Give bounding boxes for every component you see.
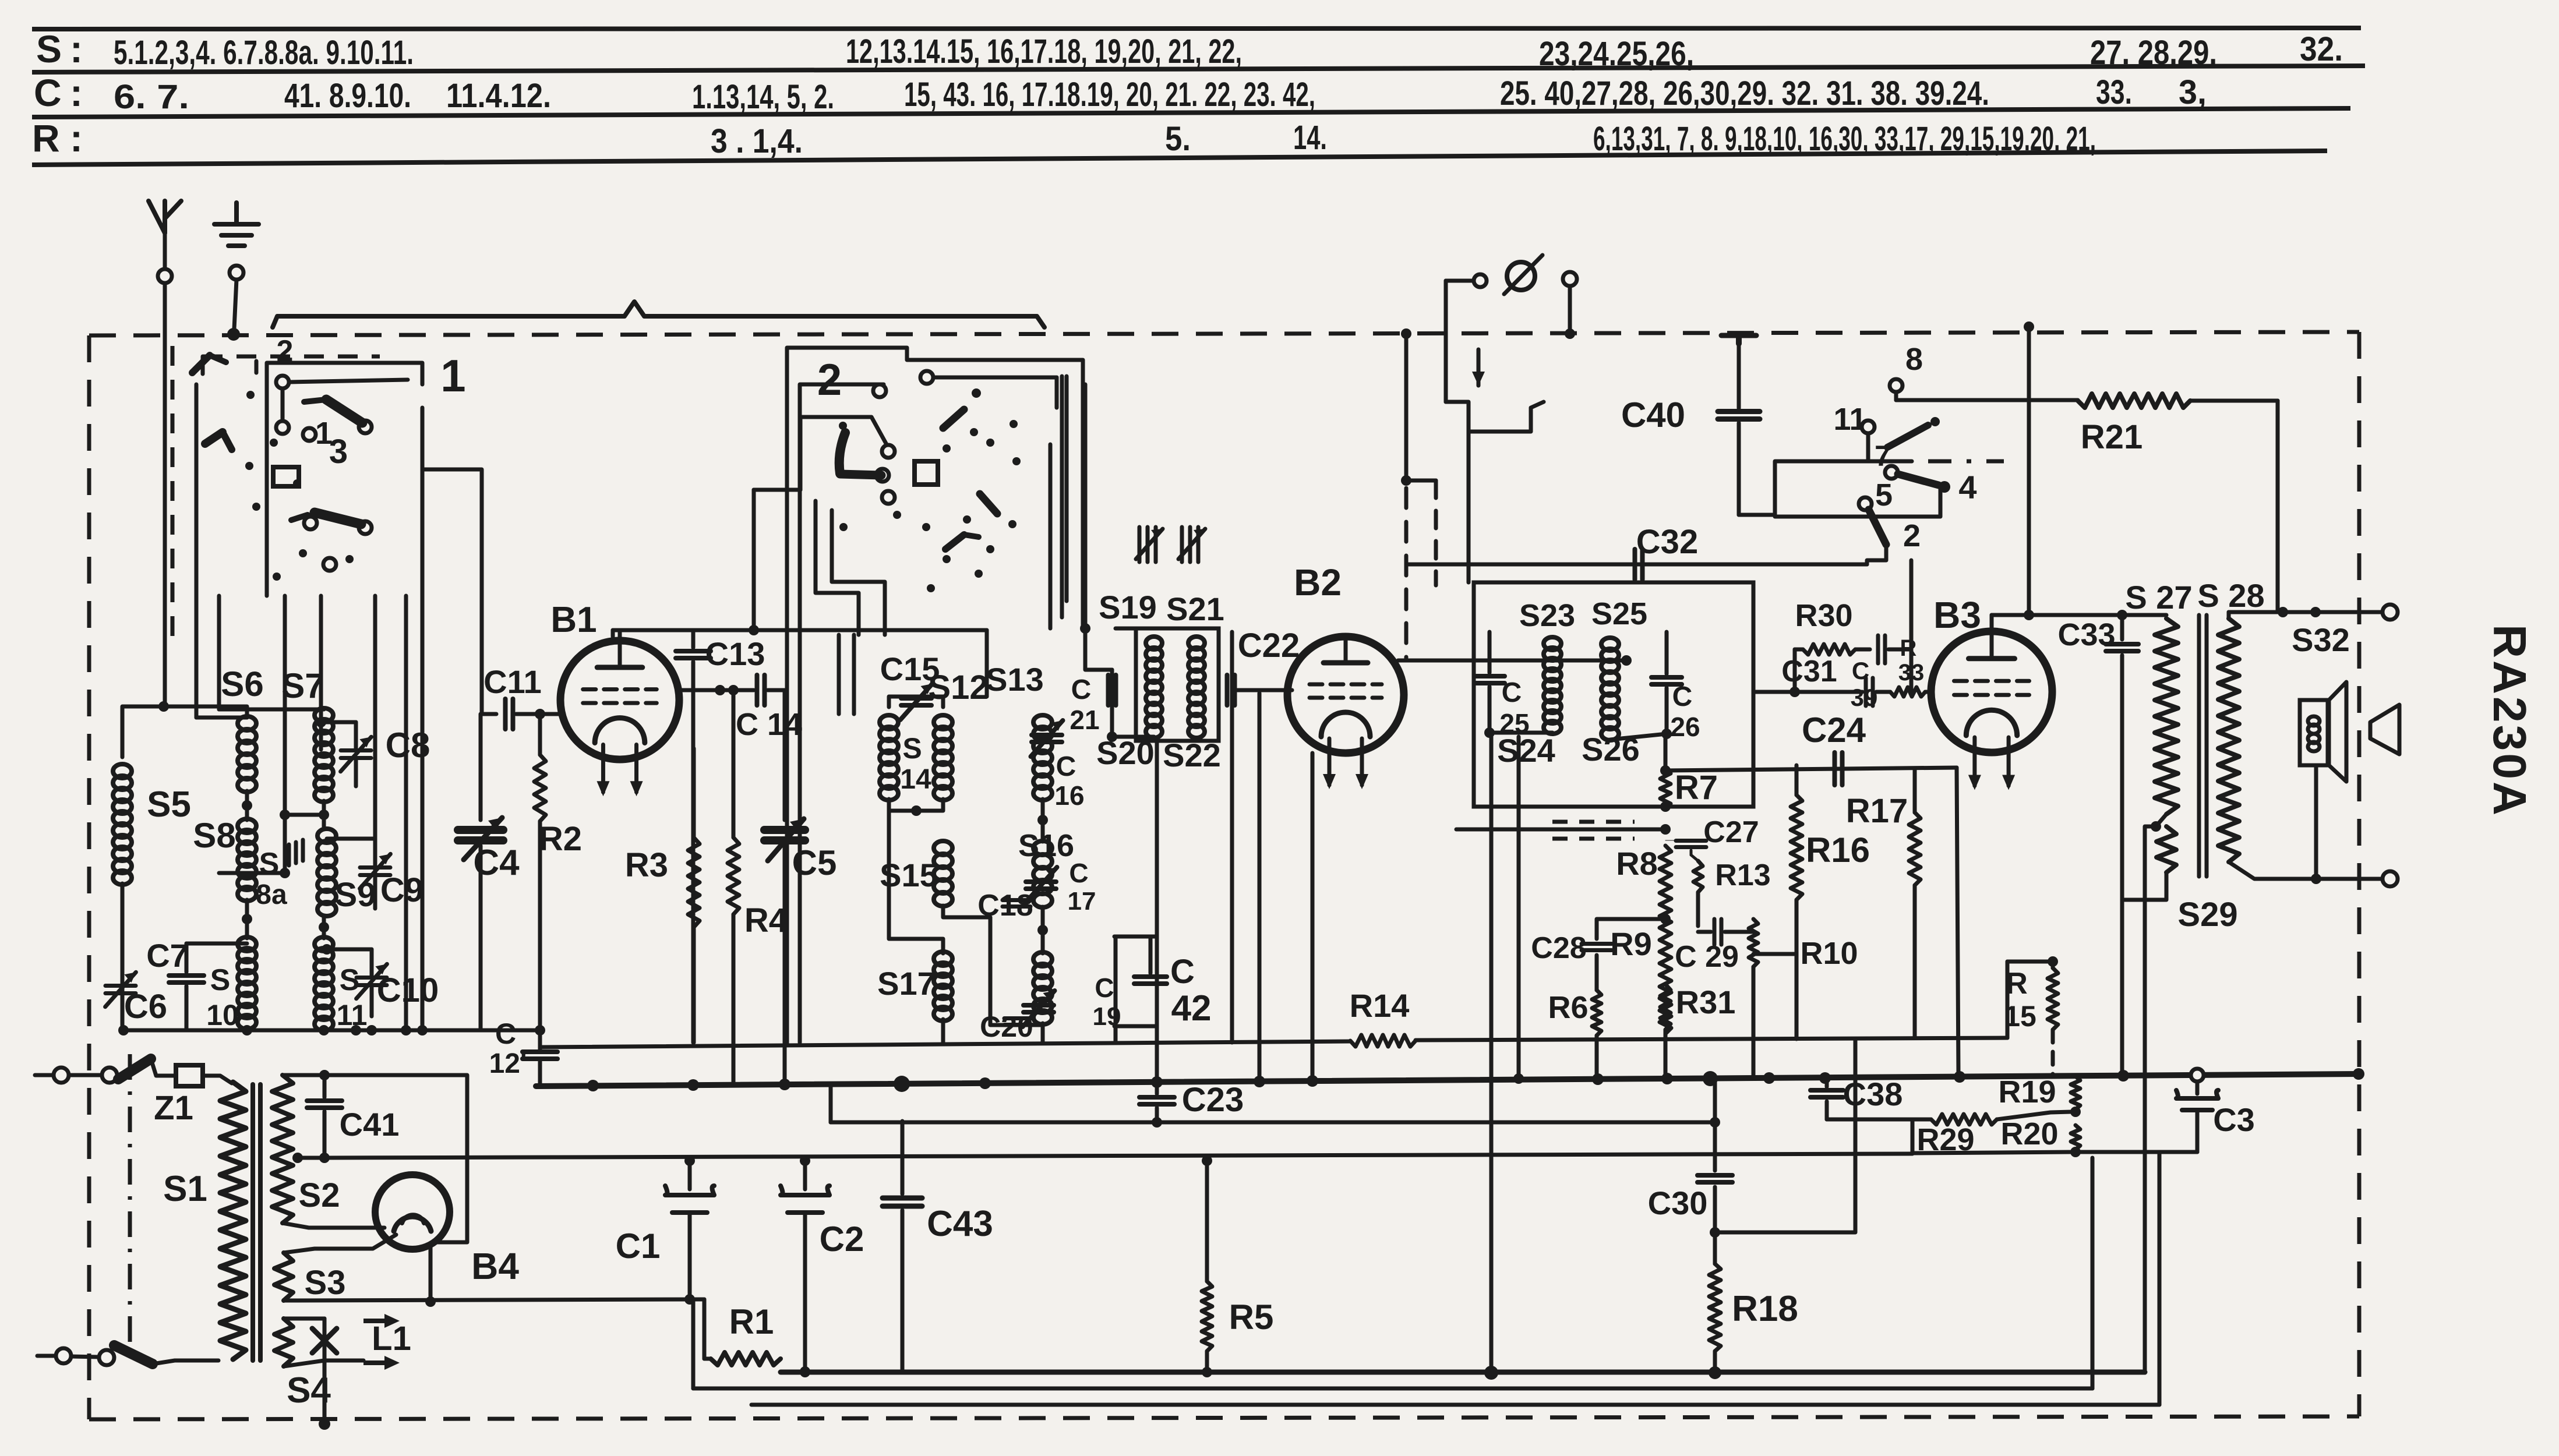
svg-text:5.: 5. bbox=[1165, 120, 1191, 158]
svg-text:12,13.14.15, 16,17.18, 19,20,: 12,13.14.15, 16,17.18, 19,20, 21, 22, bbox=[846, 33, 1242, 70]
svg-text:C3: C3 bbox=[2213, 1101, 2255, 1138]
svg-text:C24: C24 bbox=[1802, 711, 1866, 750]
svg-text:S6: S6 bbox=[221, 665, 263, 704]
svg-text:R: R bbox=[2006, 967, 2028, 1001]
svg-text:C11: C11 bbox=[483, 663, 542, 700]
svg-text:S2: S2 bbox=[299, 1176, 340, 1214]
svg-text:S5: S5 bbox=[147, 784, 191, 825]
svg-text:11.4.12.: 11.4.12. bbox=[446, 77, 551, 115]
svg-text:C: C bbox=[34, 71, 62, 114]
svg-text:S23: S23 bbox=[1519, 598, 1575, 633]
svg-text:4: 4 bbox=[1958, 469, 1976, 506]
svg-text:C: C bbox=[1071, 674, 1092, 705]
svg-text:S: S bbox=[340, 963, 360, 997]
svg-text:1.13,14, 5, 2.: 1.13,14, 5, 2. bbox=[692, 78, 834, 116]
svg-text:R6: R6 bbox=[1548, 990, 1588, 1025]
svg-text:R10: R10 bbox=[1800, 936, 1858, 971]
svg-text:C22: C22 bbox=[1238, 627, 1300, 665]
svg-text:S 28: S 28 bbox=[2197, 577, 2264, 614]
svg-text:S16: S16 bbox=[1018, 828, 1074, 863]
svg-text:R1: R1 bbox=[729, 1302, 774, 1341]
svg-text:R14: R14 bbox=[1350, 987, 1410, 1024]
svg-text::: : bbox=[70, 116, 83, 160]
svg-text:C9: C9 bbox=[380, 871, 423, 909]
svg-text:R13: R13 bbox=[1715, 858, 1770, 892]
svg-text:S32: S32 bbox=[2292, 621, 2350, 658]
svg-text::: : bbox=[70, 71, 83, 114]
svg-text:15: 15 bbox=[2004, 1000, 2036, 1033]
svg-text:27. 28.29.: 27. 28.29. bbox=[2090, 34, 2217, 72]
svg-text:C: C bbox=[1502, 677, 1522, 708]
svg-text:8: 8 bbox=[1905, 342, 1923, 377]
svg-text:C31: C31 bbox=[1781, 655, 1837, 688]
svg-text:C23: C23 bbox=[1182, 1081, 1244, 1119]
svg-text:S1: S1 bbox=[163, 1169, 207, 1209]
svg-text:R: R bbox=[1900, 635, 1917, 661]
svg-text:C10: C10 bbox=[377, 971, 439, 1009]
svg-text:5.1.2,3,4. 6.7.8.8a. 9.10.11.: 5.1.2,3,4. 6.7.8.8a. 9.10.11. bbox=[114, 34, 414, 72]
svg-text:C6: C6 bbox=[124, 988, 167, 1026]
svg-text:11: 11 bbox=[337, 999, 368, 1031]
svg-text:C: C bbox=[1056, 751, 1076, 782]
svg-text:C28: C28 bbox=[1531, 931, 1586, 965]
svg-text:21: 21 bbox=[1070, 705, 1099, 735]
svg-text:C40: C40 bbox=[1621, 395, 1685, 434]
svg-text:Z1: Z1 bbox=[154, 1089, 193, 1127]
svg-text:R8: R8 bbox=[1616, 845, 1658, 882]
svg-text:C27: C27 bbox=[1703, 815, 1759, 849]
svg-text:R21: R21 bbox=[2081, 418, 2142, 456]
svg-text:S13: S13 bbox=[986, 661, 1044, 698]
svg-text:33: 33 bbox=[1898, 660, 1925, 685]
svg-text:C7: C7 bbox=[146, 937, 188, 974]
svg-text:C32: C32 bbox=[1636, 523, 1698, 561]
svg-text:R7: R7 bbox=[1675, 769, 1718, 807]
svg-text:C 14: C 14 bbox=[736, 707, 802, 742]
svg-text:S 27: S 27 bbox=[2125, 579, 2192, 616]
svg-text:C4: C4 bbox=[473, 843, 520, 883]
svg-text:3 . 1,4.: 3 . 1,4. bbox=[711, 122, 803, 160]
svg-text:16: 16 bbox=[1054, 780, 1084, 811]
svg-text:B1: B1 bbox=[550, 600, 596, 640]
svg-text::: : bbox=[70, 27, 83, 70]
svg-text:S9: S9 bbox=[335, 876, 376, 914]
svg-text:26: 26 bbox=[1670, 712, 1700, 742]
svg-text:R4: R4 bbox=[744, 902, 788, 939]
svg-text:23,24.25,26,: 23,24.25,26, bbox=[1539, 35, 1694, 73]
svg-text:17: 17 bbox=[1068, 887, 1096, 916]
svg-text:8a: 8a bbox=[256, 879, 287, 910]
svg-text:S17: S17 bbox=[877, 965, 936, 1002]
svg-text:R3: R3 bbox=[625, 846, 668, 884]
svg-text:R16: R16 bbox=[1806, 831, 1870, 870]
svg-text:S: S bbox=[259, 847, 280, 881]
svg-text:C: C bbox=[495, 1017, 516, 1050]
svg-text:S7: S7 bbox=[281, 666, 324, 705]
svg-text:32.: 32. bbox=[2300, 30, 2343, 68]
svg-text:R19: R19 bbox=[1998, 1075, 2056, 1109]
svg-text:15, 43. 16, 17.18.19, 20, 21.: 15, 43. 16, 17.18.19, 20, 21. 22, 23. 42… bbox=[904, 76, 1315, 114]
svg-text:6,13,31, 7, 8. 9,18,10, 16,30,: 6,13,31, 7, 8. 9,18,10, 16,30, 33,17, 29… bbox=[1593, 120, 2096, 158]
svg-text:B2: B2 bbox=[1294, 561, 1342, 603]
svg-text:C1: C1 bbox=[616, 1227, 661, 1266]
svg-text:C41: C41 bbox=[340, 1106, 400, 1143]
svg-text:C30: C30 bbox=[1648, 1185, 1708, 1221]
svg-text:C33: C33 bbox=[2057, 617, 2115, 652]
svg-text:S19: S19 bbox=[1099, 589, 1157, 625]
svg-text:C: C bbox=[1095, 973, 1114, 1003]
svg-text:S3: S3 bbox=[305, 1264, 346, 1302]
svg-text:39: 39 bbox=[1851, 684, 1878, 711]
svg-text:C: C bbox=[1170, 953, 1195, 991]
svg-text:B3: B3 bbox=[1933, 594, 1981, 636]
svg-text:C: C bbox=[1852, 657, 1869, 684]
svg-text:41. 8.9.10.: 41. 8.9.10. bbox=[284, 77, 411, 115]
svg-text:12': 12' bbox=[489, 1048, 527, 1079]
svg-text:R30: R30 bbox=[1795, 598, 1852, 633]
svg-text:C: C bbox=[1069, 858, 1088, 888]
svg-text:3: 3 bbox=[329, 433, 348, 471]
svg-text:S22: S22 bbox=[1163, 737, 1221, 773]
svg-text:25. 40,27,28, 26,30,29. 32. 31: 25. 40,27,28, 26,30,29. 32. 31. 38. 39.2… bbox=[1500, 75, 1989, 112]
svg-text:S8: S8 bbox=[193, 816, 235, 855]
svg-text:R20: R20 bbox=[2000, 1116, 2058, 1151]
svg-text:L1: L1 bbox=[372, 1320, 411, 1358]
svg-text:10: 10 bbox=[206, 999, 239, 1031]
svg-text:3,: 3, bbox=[2179, 73, 2207, 111]
svg-text:S: S bbox=[36, 27, 62, 70]
svg-text:C 29: C 29 bbox=[1675, 940, 1739, 974]
svg-text:C38: C38 bbox=[1843, 1076, 1903, 1112]
svg-text:14.: 14. bbox=[1293, 119, 1327, 157]
svg-text:R18: R18 bbox=[1732, 1289, 1798, 1329]
svg-text:S21: S21 bbox=[1166, 591, 1224, 627]
svg-text:42: 42 bbox=[1171, 988, 1212, 1029]
svg-text:C43: C43 bbox=[927, 1204, 993, 1244]
svg-text:2: 2 bbox=[277, 334, 294, 368]
svg-text:S25: S25 bbox=[1591, 596, 1647, 631]
svg-text:S29: S29 bbox=[2177, 896, 2237, 934]
svg-text:S: S bbox=[210, 963, 231, 997]
svg-text:1: 1 bbox=[440, 350, 465, 401]
svg-text:B4: B4 bbox=[471, 1245, 519, 1287]
svg-text:6. 7.: 6. 7. bbox=[114, 78, 189, 116]
svg-text:S: S bbox=[902, 732, 922, 765]
svg-text:R: R bbox=[32, 116, 60, 160]
svg-text:C8: C8 bbox=[386, 726, 430, 765]
svg-text:RA230A: RA230A bbox=[2484, 624, 2536, 818]
svg-text:33.: 33. bbox=[2096, 73, 2132, 111]
svg-text:2: 2 bbox=[817, 355, 842, 405]
svg-text:R9: R9 bbox=[1610, 925, 1652, 962]
svg-text:R31: R31 bbox=[1676, 984, 1736, 1020]
svg-text:R5: R5 bbox=[1229, 1298, 1274, 1337]
svg-text:R2: R2 bbox=[539, 820, 582, 858]
svg-text:C13: C13 bbox=[705, 635, 765, 672]
svg-text:5: 5 bbox=[1875, 478, 1893, 513]
svg-text:14: 14 bbox=[900, 764, 931, 795]
svg-text:S12: S12 bbox=[928, 669, 988, 706]
svg-text:S4: S4 bbox=[287, 1370, 331, 1411]
svg-text:S20: S20 bbox=[1096, 734, 1155, 771]
svg-text:C: C bbox=[1672, 681, 1693, 712]
svg-text:2: 2 bbox=[1903, 518, 1921, 553]
svg-text:C2: C2 bbox=[820, 1220, 864, 1259]
svg-text:R17: R17 bbox=[1846, 792, 1908, 830]
